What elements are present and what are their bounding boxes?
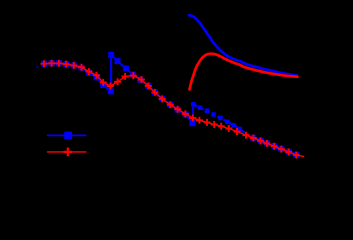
blue post-jump segment: [111, 55, 192, 123]
blue small squares on dashed segment: [191, 102, 242, 131]
red plus markers: [41, 60, 300, 159]
blue merged tail segment: [246, 135, 296, 155]
legend red entry: [47, 151, 87, 153]
inset red curve: [190, 54, 298, 90]
blue pole jump 2: [192, 104, 195, 123]
blue pole jump 1: [110, 55, 112, 92]
blue clipped first point dot: [37, 66, 39, 68]
blue dataset: solid line left segment: [44, 63, 111, 91]
blue dashed convergence segment: [193, 104, 245, 133]
blue square markers: [41, 52, 299, 158]
inset blue curve: [189, 15, 297, 75]
red dataset: main line: [44, 63, 304, 156]
legend blue entry: [47, 134, 87, 136]
